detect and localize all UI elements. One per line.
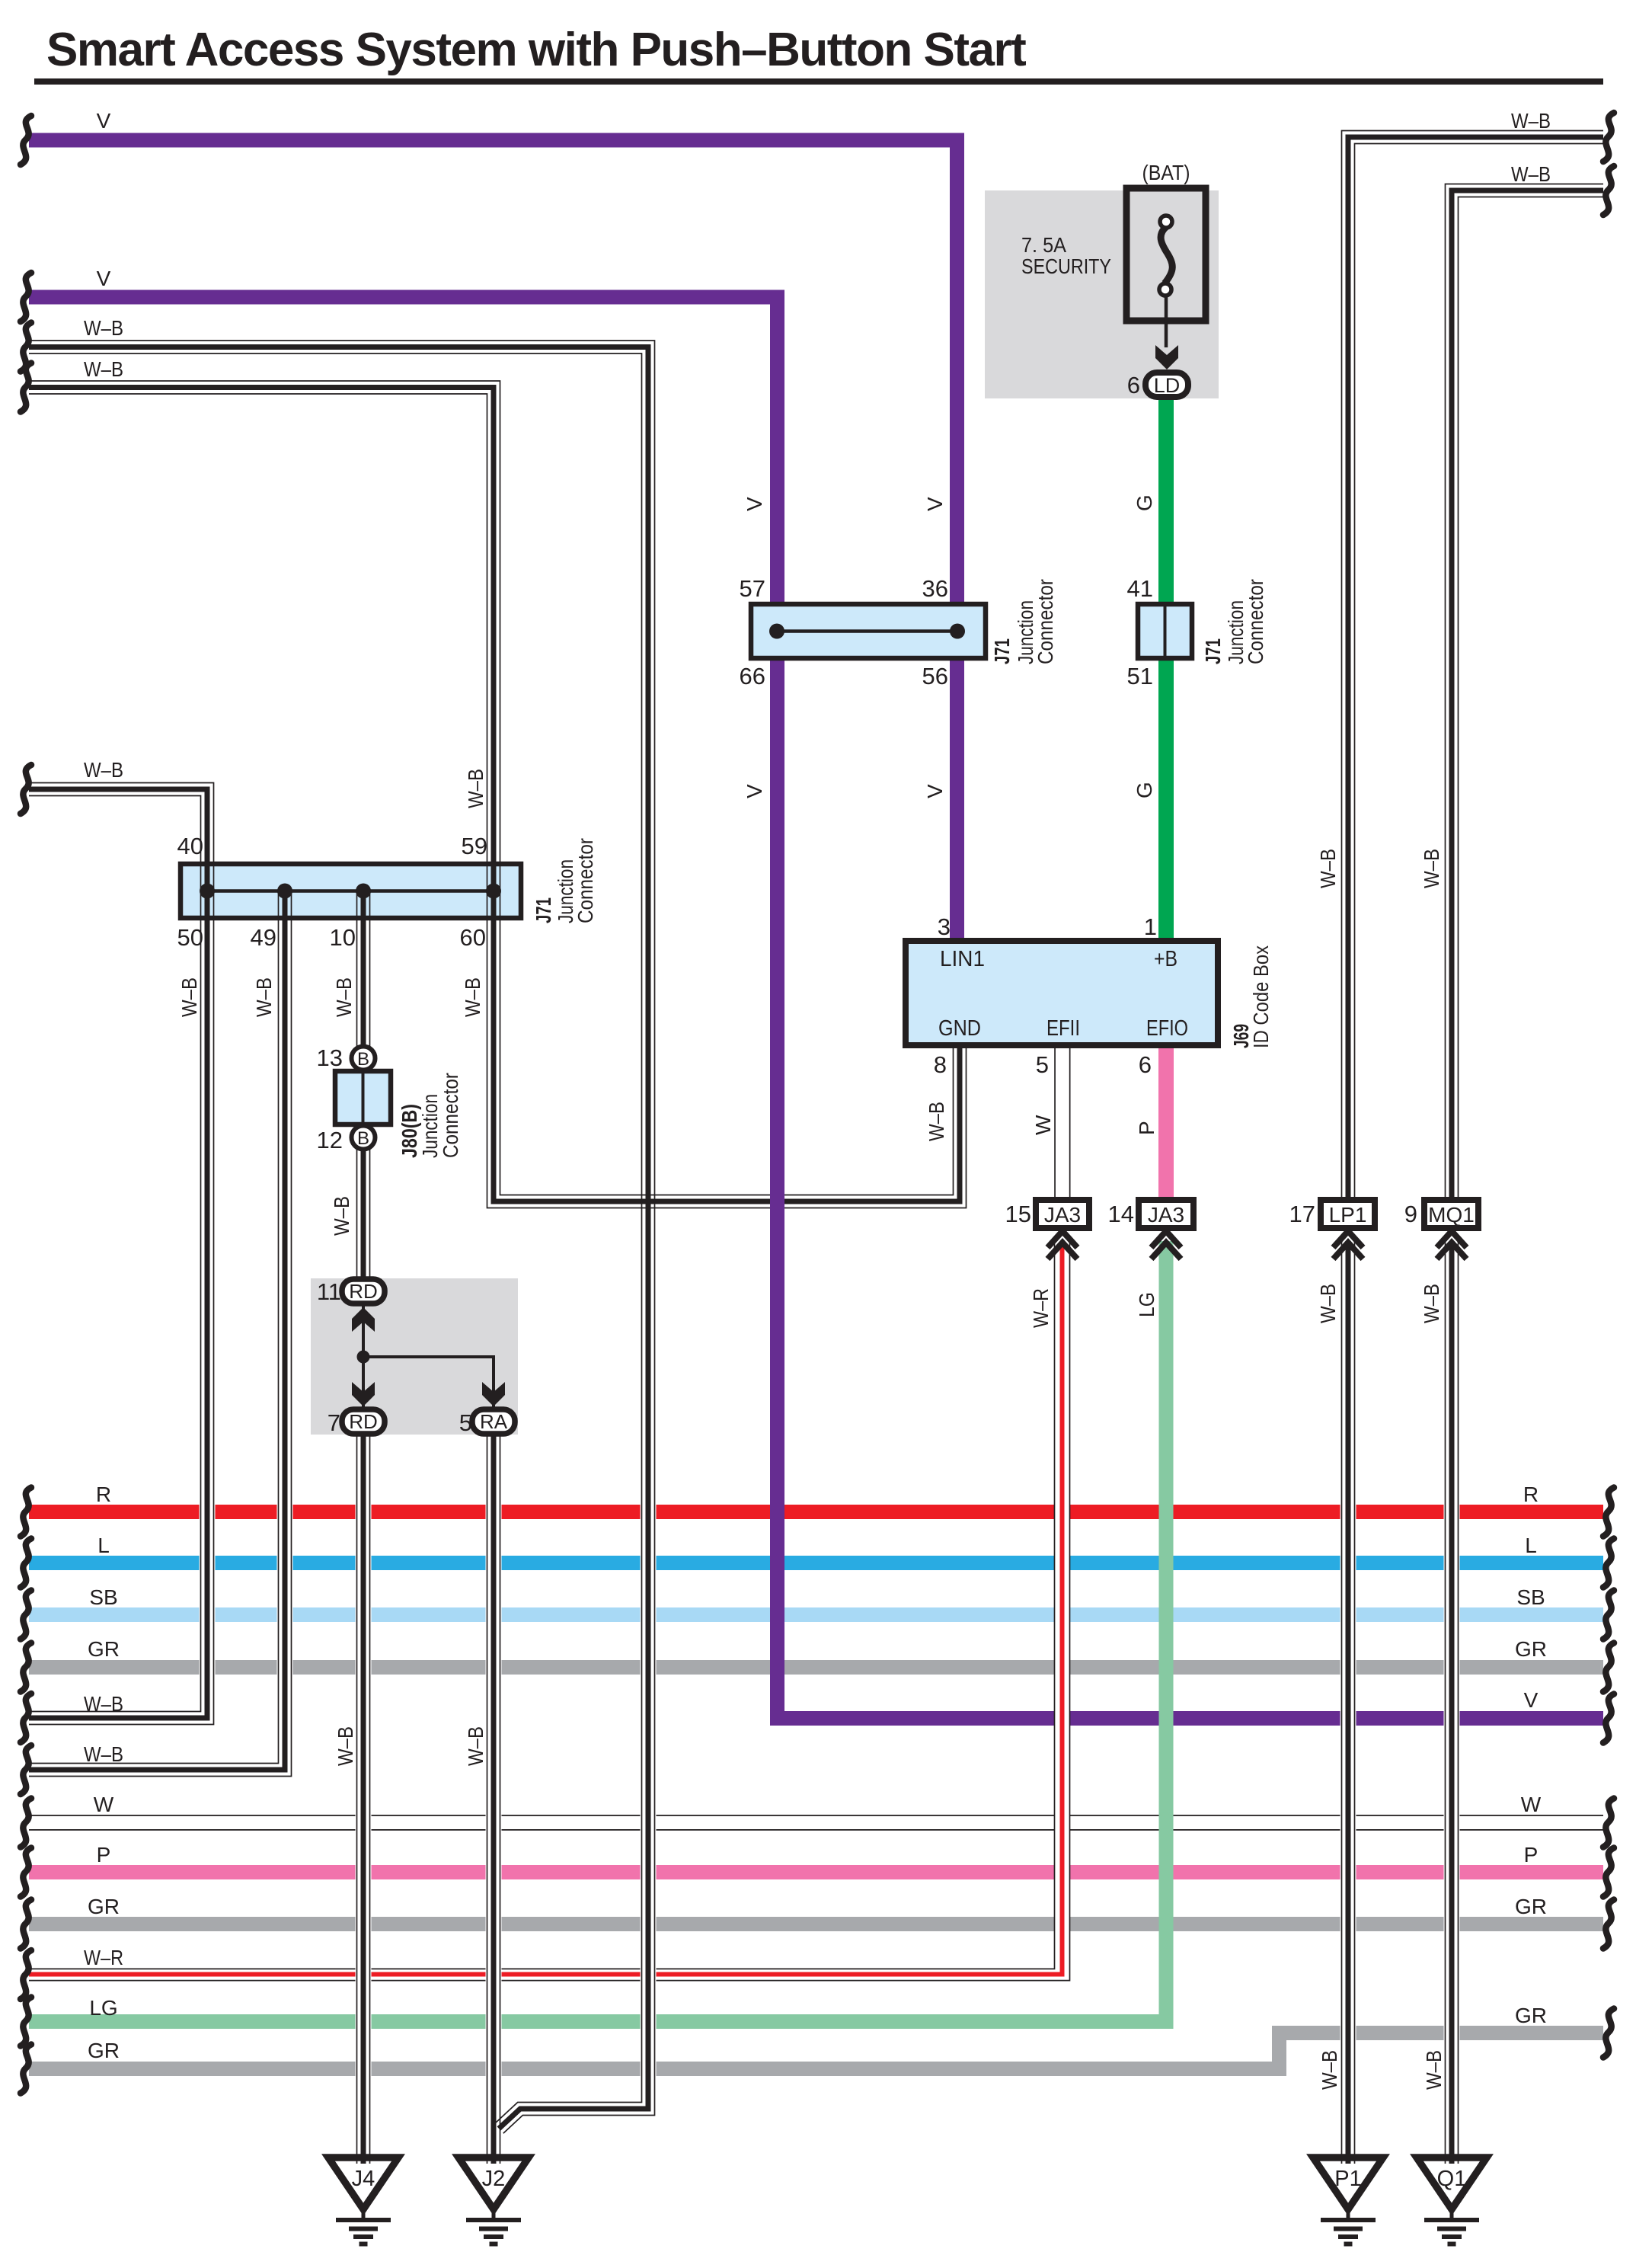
svg-text:W–B: W–B [332, 977, 356, 1017]
label Junction (violet J71) [1014, 600, 1037, 664]
title: Smart Access System with Push-Button Start [46, 24, 1026, 76]
svg-text:LP1: LP1 [1329, 1203, 1367, 1227]
svg-text:5: 5 [1036, 1051, 1049, 1078]
arrow up into connector RD pin 11 [352, 1307, 375, 1332]
wire RD internal link [363, 1304, 494, 1409]
wire W-B: right edge to connector LP1 pin 17 [1342, 131, 1604, 1203]
svg-text:V: V [97, 109, 111, 133]
label W-B (LP1 wire upper) [1316, 849, 1340, 888]
svg-text:W–B: W–B [84, 316, 123, 340]
pin 51 label [1127, 663, 1153, 689]
svg-text:EFIO: EFIO [1146, 1016, 1188, 1041]
svg-text:W–B: W–B [464, 1726, 487, 1766]
svg-text:Connector: Connector [1244, 579, 1267, 664]
svg-text:V: V [1524, 1688, 1539, 1712]
wire V: second violet feed through J71 pin 57/66 to V bus row [29, 297, 1603, 1719]
label W-B (Q1 ground wire) [1422, 2050, 1446, 2090]
right label GR (row y=2655) [1515, 2004, 1547, 2027]
pin 6 label (EFIO) [1139, 1051, 1152, 1078]
connector RD pin 11 [342, 1279, 385, 1304]
arrow into connector LD [1155, 345, 1178, 369]
svg-text:40: 40 [177, 833, 203, 859]
svg-text:J71: J71 [532, 897, 555, 923]
svg-text:P1: P1 [1334, 2167, 1361, 2191]
connector JA3 pin 15 box [1036, 1200, 1089, 1228]
svg-text:Connector: Connector [574, 838, 597, 923]
fuse name SECURITY [1021, 254, 1111, 278]
svg-text:W–B: W–B [1422, 2050, 1446, 2090]
left label V (row y=375) [97, 267, 111, 290]
label V (violet wire 2 upper) [743, 497, 766, 511]
label J80(B) [398, 1104, 421, 1158]
label ID Code Box [1249, 945, 1273, 1048]
svg-text:GR: GR [88, 1637, 120, 1661]
chevron arrow LP1 [1334, 1231, 1363, 1259]
connector MQ1 pin 9 box [1424, 1200, 1478, 1228]
node: junction dot in RD/RA block [357, 1351, 370, 1364]
wire fuse output to LD [1165, 296, 1168, 347]
squiggle left y=2255 [21, 1694, 31, 1742]
svg-text:7: 7 [328, 1409, 340, 1436]
label W-B (pin 60 wire) [461, 977, 484, 1017]
right label V (row y=2241) [1524, 1688, 1539, 1712]
wire LG: from connector JA3 pin 14 down to LG bus row [29, 1241, 1166, 2022]
svg-text:SB: SB [1516, 1585, 1545, 1609]
svg-text:7. 5A: 7. 5A [1021, 233, 1066, 257]
right label GR (row y=2512) [1515, 1895, 1547, 1918]
svg-text:V: V [923, 497, 947, 511]
svg-text:49: 49 [251, 924, 276, 951]
ID code box J69 [906, 941, 1218, 1045]
title underline [34, 78, 1603, 85]
junction dots in left J71 [200, 884, 501, 899]
svg-text:W–B: W–B [334, 1726, 357, 1766]
left label W–B (row y=1020) [84, 758, 123, 782]
squiggle left y=2188.5 [21, 1643, 31, 1692]
svg-text:3: 3 [938, 913, 951, 940]
svg-text:13: 13 [317, 1044, 343, 1071]
J69 EFII pin name [1046, 1016, 1080, 1041]
svg-text:B: B [357, 1128, 369, 1149]
label W-B (pin 10 wire) [332, 977, 356, 1017]
label Connector (left J71) [574, 838, 597, 923]
svg-text:W–R: W–R [1029, 1288, 1053, 1328]
svg-text:W–B: W–B [461, 977, 484, 1017]
svg-text:60: 60 [460, 924, 486, 951]
ground P1 [1313, 2158, 1383, 2244]
svg-text:J4: J4 [352, 2167, 375, 2191]
pin 11 label [317, 1278, 341, 1305]
wire GR (gray bus 1) [29, 1660, 1603, 1675]
squiggle left y=2119.5 [21, 1591, 31, 1639]
svg-text:JA3: JA3 [1044, 1203, 1081, 1227]
wire R (red bus) [29, 1505, 1603, 1519]
ground J2 [459, 2158, 529, 2244]
wire GR (gray bus 3 with jog) [29, 2033, 1603, 2069]
squiggle left y=2525.5 [21, 1900, 31, 1949]
pin 15 label [1005, 1201, 1031, 1227]
ground J4 [328, 2158, 398, 2244]
svg-text:W–B: W–B [1316, 849, 1340, 888]
svg-text:W–B: W–B [177, 977, 201, 1017]
left label W–B (row y=494) [84, 357, 123, 381]
J69 EFIO pin name [1146, 1016, 1188, 1041]
wire W-B: left edge long run down to ground J2 (diagonal merge) [29, 341, 655, 2133]
label W-B (J4 ground wire) [334, 1726, 357, 1766]
RD/RA connector block background [311, 1278, 518, 1435]
squiggle left y=455.5 [21, 323, 31, 372]
squiggle left y=1984.5 [21, 1488, 31, 1537]
fuse (BAT) label [1142, 161, 1190, 184]
svg-text:Q1: Q1 [1437, 2167, 1467, 2191]
label W-B (MQ1 wire upper) [1420, 849, 1443, 888]
J69 LIN1 pin name [940, 947, 985, 971]
label V (violet wire 1 lower) [923, 784, 947, 798]
squiggle left y=390 [21, 273, 31, 321]
svg-text:9: 9 [1404, 1201, 1417, 1227]
connector RA pin 5 [472, 1409, 515, 1434]
svg-text:W–B: W–B [1420, 1284, 1443, 1323]
svg-text:EFII: EFII [1046, 1016, 1080, 1041]
svg-text:51: 51 [1127, 663, 1153, 689]
svg-text:GND: GND [938, 1016, 981, 1041]
svg-text:ID Code Box: ID Code Box [1249, 945, 1273, 1048]
label V (violet wire 1 upper) [923, 497, 947, 511]
pin 1 label [1144, 913, 1157, 940]
left label LG (row y=2645) [89, 1996, 117, 2020]
svg-text:W–B: W–B [925, 1102, 948, 1141]
pin 5 label (EFII) [1036, 1051, 1049, 1078]
svg-text:W–B: W–B [1511, 109, 1551, 133]
squiggle right y=180 [1603, 113, 1614, 162]
svg-text:G: G [1133, 494, 1156, 511]
svg-text:G: G [1133, 782, 1156, 798]
wire W-B: connector RD pin 7 down to ground J4 [357, 1435, 370, 2164]
junction connector J71 (green wire, pins 41/51) [1138, 604, 1192, 658]
wire W: J69 EFII pin 5 to connector JA3 pin 15 [1054, 1045, 1070, 1201]
squiggle right y=2255.5 [1603, 1694, 1614, 1743]
wire W-B: connector LP1 pin 17 down to ground P1 [1342, 1241, 1355, 2164]
left label L (row y=2038) [97, 1534, 110, 1557]
svg-text:W–B: W–B [84, 1692, 123, 1716]
label LG (JA3-14 wire) [1135, 1292, 1158, 1317]
squiggle left y=2323 [21, 1745, 31, 1794]
label G (green wire lower) [1133, 782, 1156, 798]
chevron arrow MQ1 [1437, 1231, 1467, 1259]
label W-B (pin 50 wire) [177, 977, 201, 1017]
wire W-B through J71 pins 40/50 (inside box) [201, 864, 214, 918]
left label GR (row y=2701) [88, 2039, 120, 2062]
svg-text:5: 5 [459, 1409, 472, 1436]
svg-text:14: 14 [1108, 1201, 1134, 1227]
svg-text:8: 8 [934, 1051, 947, 1078]
svg-text:V: V [923, 784, 947, 798]
pin 3 label [938, 913, 951, 940]
wire W-B stub J71 pin 49 (inside box) [279, 891, 292, 918]
wire P: J69 EFIO pin 6 to connector JA3 pin 14 [1158, 1045, 1174, 1202]
pin 56 label [922, 663, 948, 689]
wire W-B: right edge to connector MQ1 pin 9 [1446, 184, 1604, 1203]
connector LP1 pin 17 box [1321, 1200, 1375, 1228]
svg-text:36: 36 [922, 575, 948, 602]
left label W–R (row y=2579) [84, 1946, 123, 1969]
svg-text:P: P [1524, 1843, 1539, 1867]
svg-text:P: P [97, 1843, 111, 1867]
wire W-B: J69 GND pin 8 to J71 pin 60/59 to left edge [29, 381, 967, 1208]
squiggle right y=2051.5 [1603, 1539, 1614, 1588]
pin 57 label [740, 575, 765, 602]
squiggle left y=2592 [21, 1950, 31, 1999]
connector RD pin 7 [342, 1409, 385, 1434]
wire L (blue bus) [29, 1556, 1603, 1570]
label J71 (left junction connector) [532, 897, 555, 923]
svg-text:6: 6 [1127, 372, 1140, 398]
squiggle right y=250 [1603, 166, 1614, 215]
svg-text:41: 41 [1127, 575, 1153, 602]
right label W–B (row y=238) [1511, 162, 1551, 186]
svg-text:59: 59 [462, 833, 487, 859]
pin 66 label [740, 663, 765, 689]
svg-text:B: B [357, 1049, 369, 1070]
svg-text:RD: RD [349, 1280, 378, 1303]
squiggle left y=2715.5 [21, 2045, 31, 2094]
wire W-B through J71 pins 59/60 (inside box) [487, 864, 500, 918]
svg-text:J2: J2 [482, 2167, 506, 2191]
label W-R (JA3-15 wire) [1029, 1288, 1053, 1328]
label W-B (x648 above J71) [464, 769, 487, 808]
wire SB (sky blue bus) [29, 1607, 1603, 1622]
svg-text:12: 12 [317, 1127, 343, 1153]
svg-text:W–B: W–B [84, 357, 123, 381]
right label W (row y=2378) [1521, 1793, 1542, 1816]
svg-text:JA3: JA3 [1148, 1203, 1184, 1227]
J69 GND pin name [938, 1016, 981, 1041]
label Connector (J80) [439, 1073, 462, 1158]
squiggle right y=2392.5 [1603, 1799, 1614, 1847]
label Junction (J80) [418, 1094, 442, 1158]
wire W-B: J71 pin 49 down to W-B bus row 2 [29, 918, 292, 1777]
left label P (row y=2444) [97, 1843, 111, 1867]
label W-B (J2 ground wire) [464, 1726, 487, 1766]
wire W-B: J71 pin 10 down to junction connector J80(B) [357, 918, 370, 1280]
svg-text:L: L [1525, 1534, 1537, 1557]
J69 +B pin name [1154, 947, 1177, 971]
pin 10 label [330, 924, 356, 951]
svg-text:Connector: Connector [439, 1073, 462, 1158]
svg-text:V: V [743, 497, 766, 511]
label J69 [1229, 1024, 1253, 1048]
left label SB (row y=2106) [89, 1585, 117, 1609]
label W (EFII wire) [1031, 1115, 1055, 1135]
chevron arrow JA3-14 [1152, 1231, 1181, 1259]
pin 13 label [317, 1044, 343, 1071]
svg-text:J71: J71 [990, 638, 1014, 664]
svg-text:LG: LG [89, 1996, 117, 2020]
svg-text:R: R [96, 1483, 111, 1506]
svg-text:W–B: W–B [84, 758, 123, 782]
wire W-B: connector MQ1 pin 9 down to ground Q1 [1446, 1241, 1459, 2164]
right label R (row y=1971) [1523, 1483, 1539, 1506]
fuse 7.5A SECURITY body [1126, 188, 1206, 321]
label J71 (green junction connector) [1201, 638, 1225, 664]
ground Q1 [1417, 2158, 1487, 2244]
wire GR (gray bus 2) [29, 1917, 1603, 1931]
label Connector (green J71) [1244, 579, 1267, 664]
connector B pin 12 [352, 1126, 375, 1150]
svg-text:W–B: W–B [1511, 162, 1551, 186]
right label GR (row y=2174) [1515, 1637, 1547, 1661]
svg-text:W–B: W–B [252, 977, 276, 1017]
svg-text:RA: RA [480, 1410, 508, 1433]
svg-text:V: V [743, 784, 766, 798]
left label GR (row y=2512) [88, 1895, 120, 1918]
squiggle left y=2392.5 [21, 1799, 31, 1847]
svg-text:17: 17 [1289, 1201, 1315, 1227]
svg-text:W–B: W–B [330, 1196, 353, 1236]
squiggle left y=2653.5 [21, 1998, 31, 2046]
svg-text:LG: LG [1135, 1292, 1158, 1317]
wire P (pink bus) [29, 1865, 1603, 1879]
pin 36 label [922, 575, 948, 602]
svg-text:V: V [97, 267, 111, 290]
svg-text:GR: GR [1515, 1895, 1547, 1918]
chevron arrow JA3-15 [1048, 1231, 1078, 1259]
svg-text:W–B: W–B [1316, 1284, 1340, 1323]
svg-text:W–B: W–B [464, 769, 487, 808]
svg-text:1: 1 [1144, 913, 1157, 940]
svg-text:W–R: W–R [84, 1946, 123, 1969]
pin 12 label [317, 1127, 343, 1153]
junction connector J71 (left, pins 40/59/50/49/10/60) [181, 864, 521, 918]
squiggle right y=2457.5 [1603, 1848, 1614, 1897]
connector LD pin 6 [1146, 373, 1188, 397]
arrow down into connector RD pin 7 [352, 1382, 375, 1406]
svg-text:GR: GR [88, 2039, 120, 2062]
svg-text:W: W [94, 1793, 114, 1816]
pin 60 label [460, 924, 486, 951]
svg-text:Connector: Connector [1034, 579, 1057, 664]
right label L (row y=2038) [1525, 1534, 1537, 1557]
label W-B (LP1 wire lower) [1316, 1284, 1340, 1323]
label W-B (MQ1 wire lower) [1420, 1284, 1443, 1323]
left label R (row y=1971) [96, 1483, 111, 1506]
svg-text:GR: GR [1515, 1637, 1547, 1661]
svg-text:66: 66 [740, 663, 765, 689]
svg-text:Smart Access System with Push–: Smart Access System with Push–Button Sta… [46, 24, 1026, 76]
svg-text:57: 57 [740, 575, 765, 602]
label Junction (left J71) [554, 859, 577, 923]
svg-text:LIN1: LIN1 [940, 947, 985, 971]
squiggle right y=2525.5 [1603, 1900, 1614, 1949]
fuse element symbol [1159, 216, 1172, 296]
svg-text:RD: RD [349, 1410, 378, 1433]
pin 5 label (RA) [459, 1409, 472, 1436]
label Connector (violet J71) [1034, 579, 1057, 664]
pin 49 label [251, 924, 276, 951]
pin 50 label [177, 924, 203, 951]
wire W-R: from connector JA3 pin 15 down to W-R bus row [29, 1241, 1070, 1981]
label Junction (green J71) [1224, 600, 1248, 664]
pin 59 label [462, 833, 487, 859]
svg-text:P: P [1135, 1121, 1158, 1135]
squiggle left y=508.5 [21, 363, 31, 412]
squiggle right y=1984.5 [1603, 1488, 1614, 1537]
squiggle right y=2668.5 [1603, 2009, 1614, 2058]
left label GR (row y=2174) [88, 1637, 120, 1661]
squiggle right y=2188.5 [1603, 1643, 1614, 1692]
svg-text:GR: GR [88, 1895, 120, 1918]
left label V (row y=168) [97, 109, 111, 133]
pin 6 label (LD) [1127, 372, 1140, 398]
wire W (white bus) [29, 1815, 1603, 1831]
connector JA3 pin 14 box [1139, 1200, 1193, 1228]
svg-text:MQ1: MQ1 [1428, 1203, 1475, 1227]
svg-text:10: 10 [330, 924, 356, 951]
label W-B (above RD block) [330, 1196, 353, 1236]
svg-text:W–B: W–B [84, 1742, 123, 1766]
pin 7 label [328, 1409, 340, 1436]
wire W-B stub J71 pin 10 (inside box) [357, 891, 370, 918]
svg-text:6: 6 [1139, 1051, 1152, 1078]
svg-text:15: 15 [1005, 1201, 1031, 1227]
pin 8 label [934, 1051, 947, 1078]
squiggle left y=184 [21, 116, 31, 165]
label W-B (P1 ground wire) [1318, 2050, 1341, 2090]
wire W-B: connector RA pin 5 down to ground J2 [487, 1435, 500, 2164]
svg-text:J71: J71 [1201, 638, 1225, 664]
pin 40 label [177, 833, 203, 859]
squiggle left y=1036 [21, 765, 31, 814]
left label W–B (row y=2246) [84, 1692, 123, 1716]
label W-B (GND wire) [925, 1102, 948, 1141]
pin 41 label [1127, 575, 1153, 602]
label W-B (pin 49 wire) [252, 977, 276, 1017]
junction connector J80(B) [335, 1071, 391, 1124]
pin 17 label [1289, 1201, 1315, 1227]
pin 14 label [1108, 1201, 1134, 1227]
svg-text:W: W [1521, 1793, 1542, 1816]
svg-text:50: 50 [177, 924, 203, 951]
svg-text:(BAT): (BAT) [1142, 161, 1190, 184]
wire V: first violet feed to J69 LIN1 pin 3 [29, 140, 957, 941]
left label W (row y=2378) [94, 1793, 114, 1816]
label V (violet wire 2 lower) [743, 784, 766, 798]
svg-text:W–B: W–B [1420, 849, 1443, 888]
wire G: from fuse connector LD to J69 +B pin 1 [1158, 387, 1174, 941]
label P (EFIO wire) [1135, 1121, 1158, 1135]
svg-text:56: 56 [922, 663, 948, 689]
right label P (row y=2444) [1524, 1843, 1539, 1867]
fuse rating 7.5A [1021, 233, 1066, 257]
pin 9 label [1404, 1201, 1417, 1227]
right label W–B (row y=168) [1511, 109, 1551, 133]
squiggle right y=2119.5 [1603, 1591, 1614, 1639]
security fuse block background [985, 190, 1219, 398]
right label SB (row y=2106) [1516, 1585, 1545, 1609]
junction connector J71 (violet pair, pins 57/36/66/56) [751, 604, 986, 658]
svg-text:+B: +B [1154, 947, 1177, 971]
svg-text:R: R [1523, 1483, 1539, 1506]
svg-text:SECURITY: SECURITY [1021, 254, 1111, 278]
svg-text:11: 11 [317, 1278, 341, 1305]
arrow down into connector RA pin 5 [482, 1382, 505, 1406]
wire W-B: left edge through J71 pin 40/50 to W-B bus row 1 [29, 783, 214, 1725]
label G (green wire upper) [1133, 494, 1156, 511]
left label W–B (row y=2312) [84, 1742, 123, 1766]
svg-text:GR: GR [1515, 2004, 1547, 2027]
label J71 (violet junction connector) [990, 638, 1014, 664]
svg-text:W–B: W–B [1318, 2050, 1341, 2090]
